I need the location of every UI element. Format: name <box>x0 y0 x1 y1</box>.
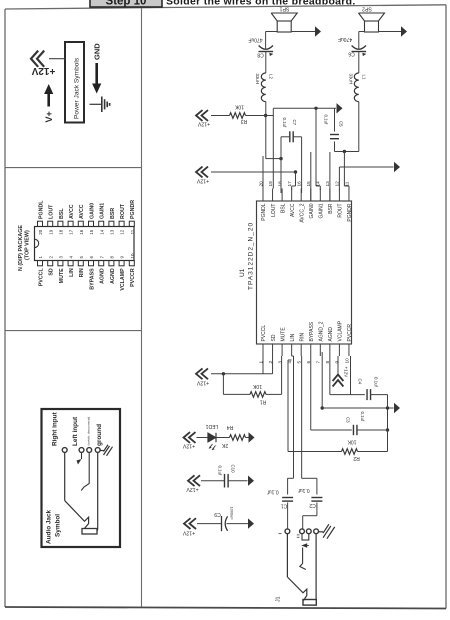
svg-text:R3: R3 <box>241 118 248 124</box>
svg-text:PVCCL: PVCCL <box>38 268 44 287</box>
svg-text:VCLAMP: VCLAMP <box>120 268 126 291</box>
svg-text:Left input: Left input <box>72 416 79 446</box>
svg-text:R4: R4 <box>227 424 234 430</box>
svg-text:12: 12 <box>120 229 125 235</box>
svg-text:0.1uf: 0.1uf <box>374 377 379 388</box>
svg-text:SD: SD <box>49 268 55 276</box>
svg-text:N (DIP) PACKAGE: N (DIP) PACKAGE <box>18 225 24 271</box>
svg-text:C4: C4 <box>358 379 363 385</box>
svg-text:0.1uf: 0.1uf <box>267 489 279 495</box>
svg-text:GAIN0: GAIN0 <box>89 203 95 219</box>
svg-text:LIN: LIN <box>290 333 296 341</box>
svg-text:Power Jack Symbols: Power Jack Symbols <box>74 57 81 119</box>
svg-text:ROUT: ROUT <box>338 204 344 218</box>
svg-text:C6: C6 <box>348 51 355 57</box>
svg-text:J1: J1 <box>276 596 282 602</box>
svg-text:+12V: +12V <box>182 529 195 535</box>
svg-text:0.1uf: 0.1uf <box>298 487 310 493</box>
svg-text:33uH: 33uH <box>349 74 354 85</box>
svg-text:Audio Jack: Audio Jack <box>46 509 53 544</box>
svg-text:470uF: 470uF <box>248 37 262 43</box>
svg-text:C9: C9 <box>214 511 221 517</box>
svg-text:PGNDL: PGNDL <box>38 200 44 219</box>
svg-text:ground: ground <box>96 424 103 446</box>
svg-text:20: 20 <box>38 229 43 235</box>
svg-text:Step 10: Step 10 <box>106 0 147 7</box>
svg-text:AGND_2: AGND_2 <box>319 321 325 341</box>
svg-text:5: 5 <box>297 361 302 364</box>
svg-text:+12V: +12V <box>182 442 195 448</box>
svg-text:V+: V+ <box>44 111 54 122</box>
svg-text:MUTE: MUTE <box>59 268 65 283</box>
svg-text:C1: C1 <box>281 503 288 509</box>
svg-text:ROUT: ROUT <box>120 203 126 219</box>
svg-text:0.1uf: 0.1uf <box>218 466 223 477</box>
svg-text:0.1uf: 0.1uf <box>324 115 329 126</box>
svg-text:PGNDR: PGNDR <box>130 200 136 219</box>
svg-text:PVCCL: PVCCL <box>261 325 267 342</box>
svg-text:17: 17 <box>69 229 74 235</box>
svg-text:SD: SD <box>271 334 277 341</box>
svg-text:(switch: disconnects): (switch: disconnects) <box>87 417 91 446</box>
svg-text:PGNDR: PGNDR <box>347 203 353 221</box>
svg-text:LOUT: LOUT <box>49 204 55 219</box>
svg-text:VCLAMP: VCLAMP <box>338 320 344 341</box>
svg-text:+12V: +12V <box>186 486 199 492</box>
svg-text:C8: C8 <box>257 52 264 58</box>
svg-text:BSR: BSR <box>328 203 334 214</box>
svg-text:16: 16 <box>297 181 302 187</box>
svg-text:Solder the wires on the breadb: Solder the wires on the breadboard. <box>166 0 356 7</box>
svg-text:33uH: 33uH <box>255 74 260 85</box>
svg-text:LIN: LIN <box>69 268 75 277</box>
svg-text:C5: C5 <box>339 121 344 127</box>
svg-text:R1: R1 <box>260 399 267 405</box>
svg-text:GAIN1: GAIN1 <box>100 203 106 219</box>
svg-text:10K: 10K <box>347 439 357 445</box>
svg-text:1000uF: 1000uF <box>230 507 235 521</box>
svg-text:7: 7 <box>316 361 321 364</box>
svg-text:RIN: RIN <box>79 268 85 277</box>
svg-text:11: 11 <box>130 229 135 234</box>
svg-text:LED1: LED1 <box>206 423 219 429</box>
svg-text:GND: GND <box>93 43 102 60</box>
svg-text:+12V: +12V <box>31 65 55 76</box>
svg-text:+12V: +12V <box>196 177 209 183</box>
svg-text:18: 18 <box>59 229 64 235</box>
svg-text:9: 9 <box>335 361 340 364</box>
svg-text:19: 19 <box>48 229 53 235</box>
svg-text:(TOP VIEW): (TOP VIEW) <box>25 230 31 260</box>
svg-text:10K: 10K <box>234 104 244 110</box>
svg-text:10K: 10K <box>252 383 262 389</box>
svg-text:GAIN1: GAIN1 <box>319 203 325 218</box>
svg-text:0.1uf: 0.1uf <box>282 118 287 129</box>
svg-text:10: 10 <box>130 253 135 259</box>
svg-text:AVCC_2: AVCC_2 <box>299 203 305 222</box>
svg-text:SP1: SP1 <box>279 5 289 11</box>
svg-text:L2: L2 <box>269 74 274 79</box>
svg-text:SP2: SP2 <box>362 5 372 11</box>
svg-text:GAIN0: GAIN0 <box>309 203 315 218</box>
svg-text:470uF: 470uF <box>338 36 352 42</box>
svg-text:17: 17 <box>287 181 292 187</box>
svg-text:PGNDL: PGNDL <box>261 203 267 220</box>
svg-text:RIN: RIN <box>299 333 305 342</box>
svg-text:AVCC: AVCC <box>69 204 75 219</box>
svg-text:BYPASS: BYPASS <box>309 321 315 341</box>
svg-text:AGND: AGND <box>328 327 334 342</box>
svg-text:R2: R2 <box>353 455 360 461</box>
svg-text:15: 15 <box>89 229 94 235</box>
svg-text:L1: L1 <box>361 75 366 80</box>
svg-text:19: 19 <box>268 181 273 187</box>
svg-text:Symbol: Symbol <box>55 514 62 537</box>
svg-text:C2: C2 <box>309 502 316 508</box>
svg-text:BSL: BSL <box>59 208 65 219</box>
svg-text:+12V: +12V <box>197 121 210 127</box>
svg-text:BYPASS: BYPASS <box>89 268 95 290</box>
svg-text:2K: 2K <box>221 442 228 448</box>
svg-text:AVCC: AVCC <box>290 203 296 217</box>
svg-text:16: 16 <box>79 229 84 235</box>
svg-text:+12V: +12V <box>196 379 209 385</box>
svg-text:TPA3122D2_N_20: TPA3122D2_N_20 <box>248 222 255 290</box>
svg-text:10: 10 <box>344 358 349 364</box>
svg-text:C7: C7 <box>292 120 297 126</box>
svg-text:AVCC: AVCC <box>79 204 85 219</box>
svg-text:AGND: AGND <box>100 268 106 284</box>
svg-text:U1: U1 <box>239 268 246 277</box>
svg-text:+12V: +12V <box>344 367 349 379</box>
svg-text:LOUT: LOUT <box>271 204 277 217</box>
svg-text:PVCCR: PVCCR <box>347 324 353 342</box>
svg-text:BSR: BSR <box>110 208 116 219</box>
svg-text:MUTE: MUTE <box>280 327 286 342</box>
svg-text:C3: C3 <box>346 417 351 423</box>
svg-text:13: 13 <box>110 229 115 235</box>
svg-text:Right input: Right input <box>52 411 59 446</box>
svg-text:C10: C10 <box>231 465 236 474</box>
svg-text:PVCCR: PVCCR <box>130 268 136 287</box>
svg-text:18: 18 <box>277 181 282 187</box>
svg-text:0.1uf: 0.1uf <box>360 412 365 423</box>
svg-text:BSL: BSL <box>280 203 286 213</box>
svg-text:14: 14 <box>99 229 104 235</box>
svg-text:AGND: AGND <box>110 268 116 284</box>
